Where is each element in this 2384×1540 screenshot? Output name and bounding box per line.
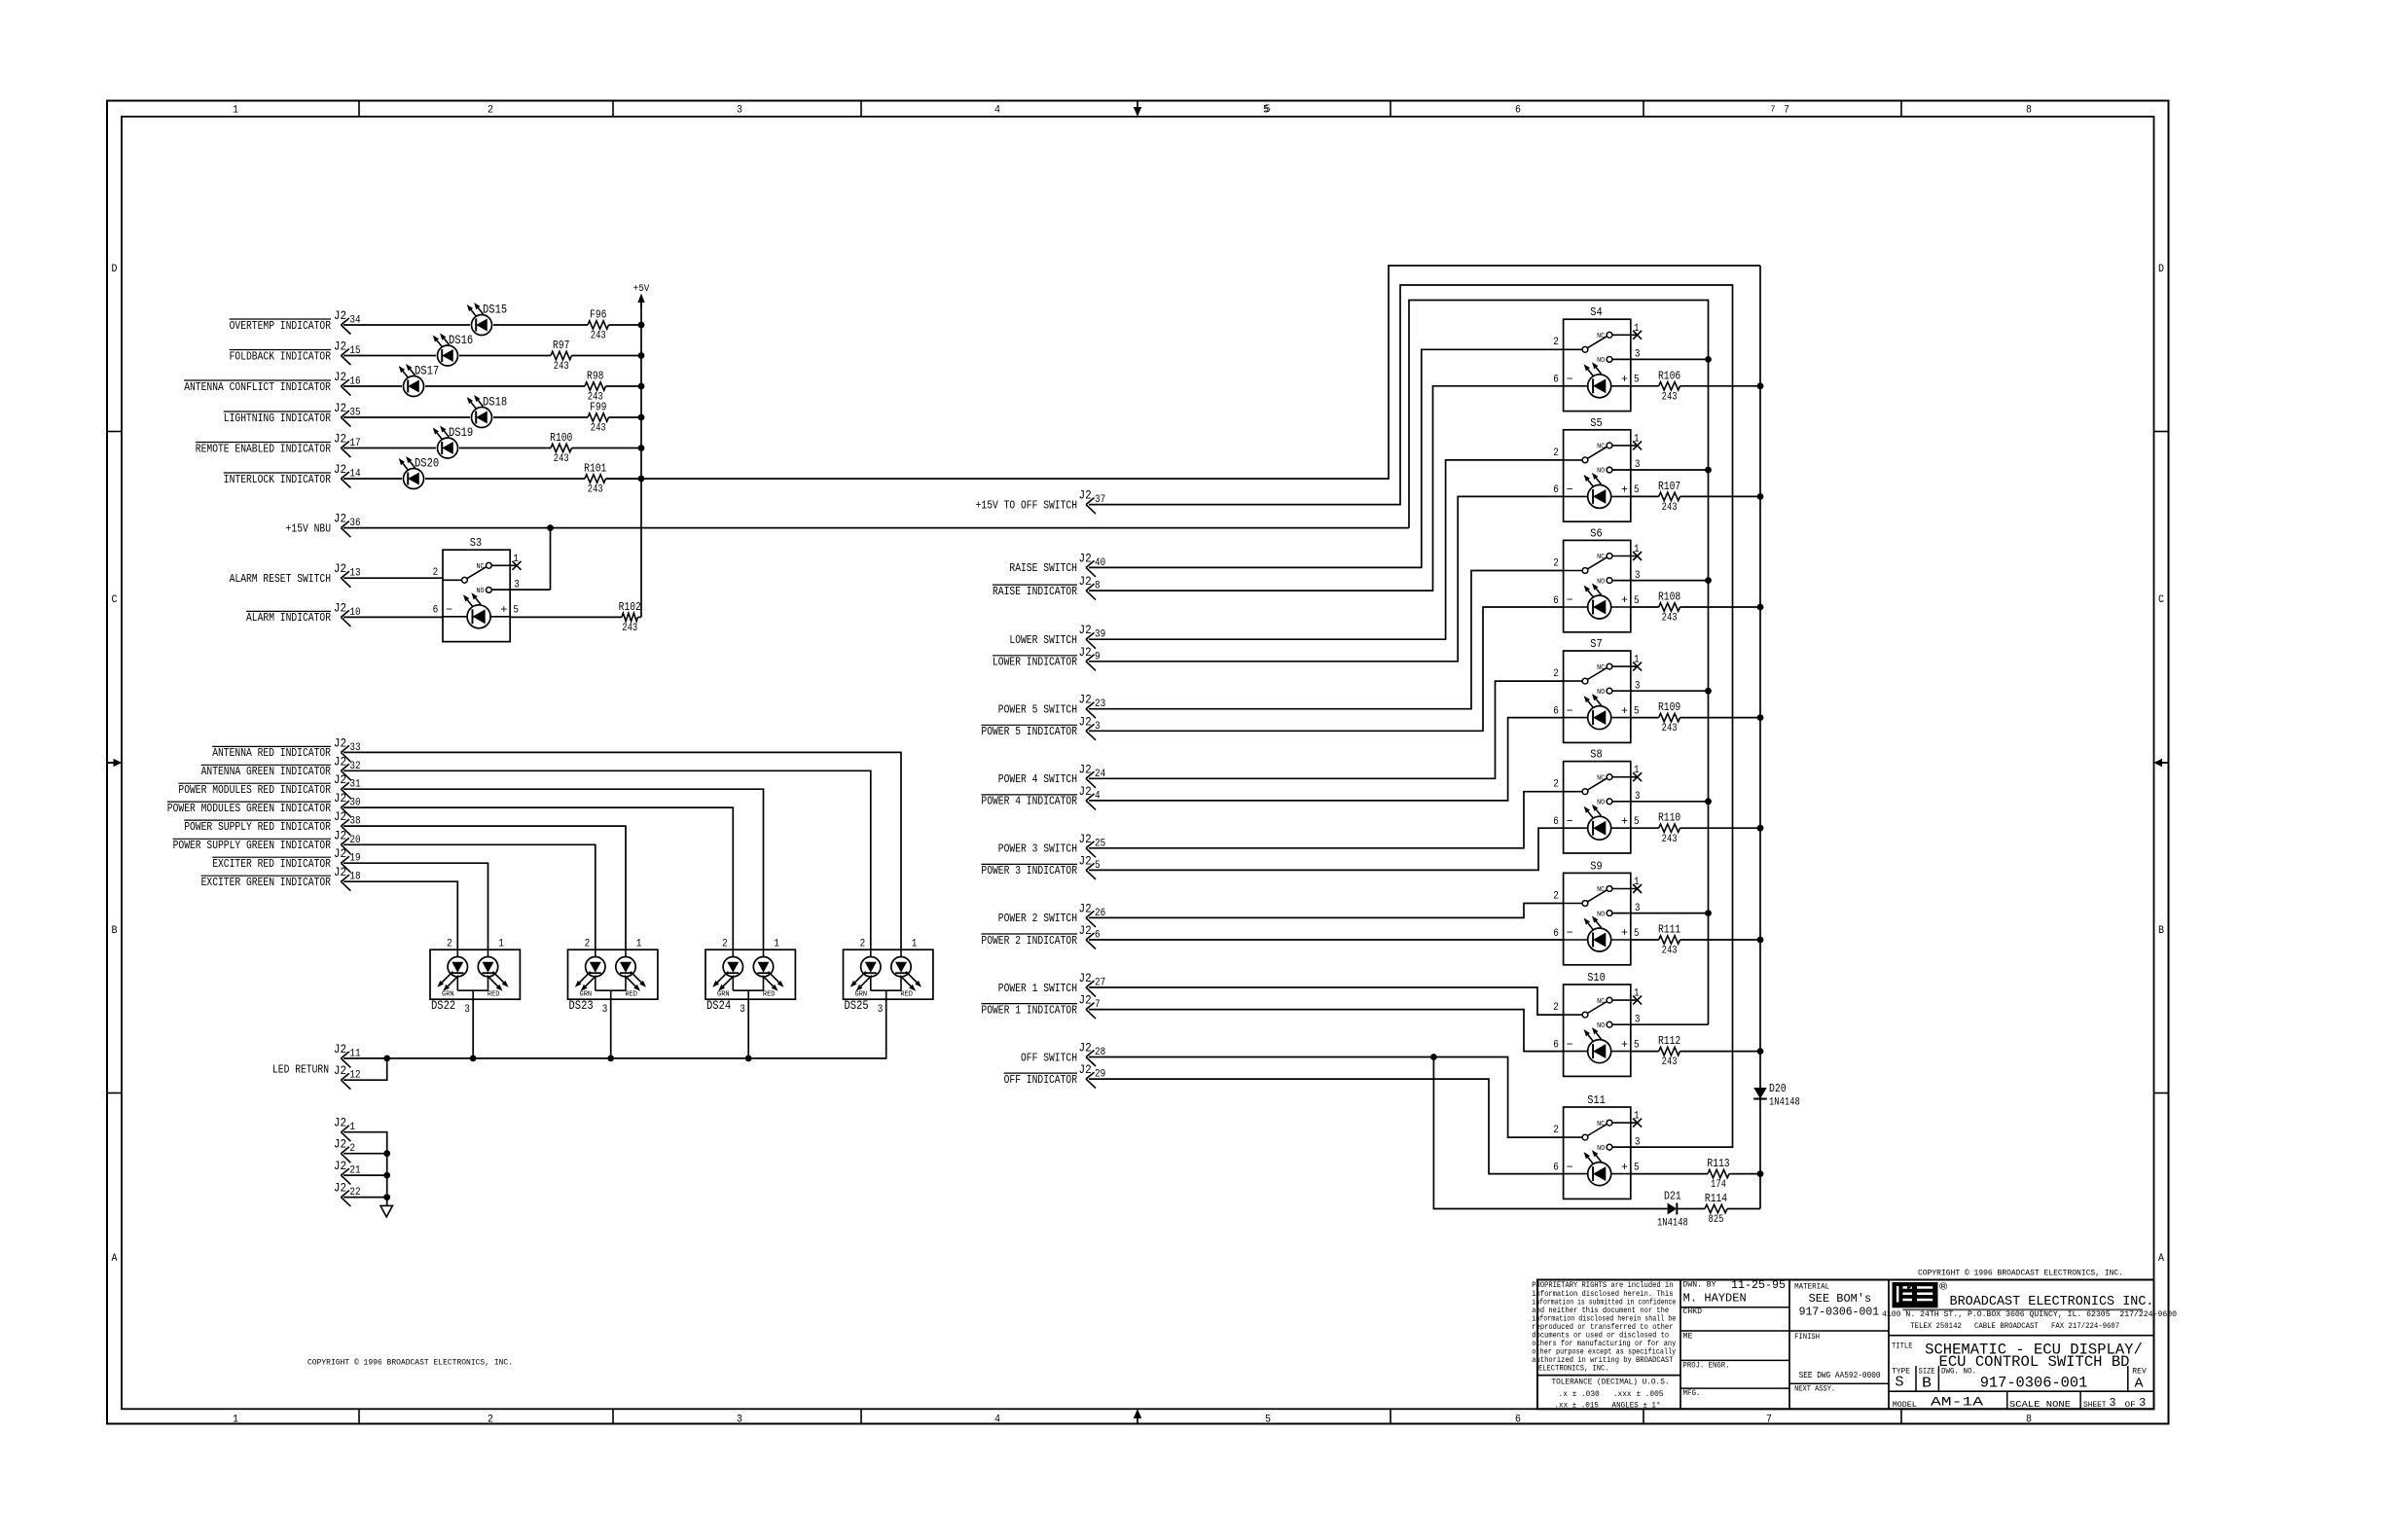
svg-text:SCALE NONE: SCALE NONE — [2009, 1399, 2071, 1410]
wire POWER 2 SWITCH net — [1089, 904, 1564, 918]
connector J2 pin 1 — [334, 1116, 355, 1142]
svg-text:3: 3 — [737, 105, 742, 117]
connector J2 pin 28 (OFF SWITCH) — [1021, 1041, 1105, 1067]
svg-text:1N4148: 1N4148 — [1769, 1097, 1800, 1109]
svg-text:2: 2 — [1553, 779, 1559, 791]
svg-text:RED: RED — [763, 991, 776, 999]
svg-text:+: + — [500, 603, 507, 617]
dual LED DS22 — [430, 939, 520, 1016]
svg-text:6: 6 — [1553, 484, 1559, 496]
svg-text:B: B — [112, 925, 118, 937]
wire +15V TO OFF SWITCH net — [1089, 285, 1733, 1147]
svg-text:243: 243 — [1662, 613, 1678, 625]
switch S9 — [1553, 859, 1642, 964]
svg-text:J2: J2 — [1079, 832, 1092, 846]
svg-text:2: 2 — [488, 1415, 493, 1426]
svg-text:B: B — [1922, 1376, 1932, 1392]
svg-text:POWER 2 INDICATOR: POWER 2 INDICATOR — [981, 934, 1077, 948]
svg-text:243: 243 — [1662, 1057, 1678, 1068]
connector J2 pin 24 (POWER 4 SWITCH) — [998, 762, 1106, 788]
resistor R106 — [1658, 369, 1680, 403]
wire POWER 3 INDICATOR net — [1089, 828, 1564, 870]
wire OFF SWITCH net — [1089, 1054, 1668, 1208]
resistor R114 — [1705, 1192, 1727, 1226]
wire S10 pin3 to NBU bus — [1612, 1023, 1709, 1025]
svg-text:6: 6 — [433, 605, 439, 617]
svg-text:4: 4 — [994, 1415, 1000, 1426]
wire EXCITER GREEN INDICATOR net — [343, 881, 457, 949]
diode D21 — [1657, 1190, 1688, 1230]
wire POWER 5 INDICATOR net — [1089, 607, 1564, 731]
resistor R113 — [1707, 1157, 1729, 1191]
svg-text:1: 1 — [1634, 988, 1640, 1000]
connector J2 pin 18 (EXCITER GREEN INDICATOR) — [201, 865, 361, 891]
svg-text:6: 6 — [1553, 816, 1559, 828]
svg-text:OF: OF — [2125, 1401, 2136, 1410]
resistor R101 — [584, 462, 606, 496]
diode D20 — [1753, 1082, 1800, 1109]
svg-text:DS15: DS15 — [483, 303, 507, 316]
svg-text:5: 5 — [513, 605, 519, 617]
svg-text:F96: F96 — [590, 308, 606, 322]
svg-text:2: 2 — [1553, 1125, 1559, 1136]
resistor R109 — [1658, 700, 1680, 734]
svg-text:3: 3 — [737, 1415, 742, 1426]
svg-text:3: 3 — [2110, 1396, 2116, 1410]
svg-text:5: 5 — [1634, 484, 1640, 496]
svg-text:1: 1 — [513, 554, 519, 565]
LED DS18 — [467, 395, 507, 428]
resistor R111 — [1658, 923, 1680, 957]
svg-text:825: 825 — [1709, 1214, 1724, 1226]
connector J2 pin 23 (POWER 5 SWITCH) — [998, 693, 1105, 719]
svg-text:1: 1 — [233, 105, 238, 117]
svg-text:SHEET: SHEET — [2083, 1401, 2107, 1410]
switch S7 — [1553, 637, 1642, 742]
svg-text:1: 1 — [498, 939, 504, 950]
ground symbol — [380, 1205, 392, 1217]
connector J2 pin 35 (LIGHTNING INDICATOR) — [224, 401, 361, 427]
svg-text:RED: RED — [900, 991, 913, 999]
connector J2 pin 32 (ANTENNA GREEN INDICATOR) — [201, 754, 361, 780]
svg-text:GRN: GRN — [442, 991, 454, 999]
svg-text:NO: NO — [1597, 911, 1605, 918]
svg-text:J2: J2 — [334, 1137, 346, 1152]
svg-text:J2: J2 — [1079, 762, 1092, 776]
svg-text:NO: NO — [1597, 1145, 1605, 1153]
svg-text:SEE DWG AA592-0000: SEE DWG AA592-0000 — [1799, 1370, 1881, 1380]
wire S6 pin3 to NBU bus — [1612, 577, 1712, 584]
wire OVERTEMP INDICATOR net — [343, 322, 644, 329]
svg-text:J2: J2 — [334, 1116, 346, 1130]
svg-text:NO: NO — [1597, 689, 1605, 697]
title block title — [1892, 1341, 2143, 1371]
svg-text:NC: NC — [1597, 1121, 1605, 1128]
connector J2 pin 21 — [334, 1159, 361, 1185]
svg-text:6: 6 — [1553, 705, 1559, 717]
wire S7 pin3 to NBU bus — [1612, 688, 1712, 695]
svg-text:ANTENNA CONFLICT INDICATOR: ANTENNA CONFLICT INDICATOR — [184, 380, 331, 394]
svg-text:COPYRIGHT © 1996 BROADCAST ELE: COPYRIGHT © 1996 BROADCAST ELECTRONICS, … — [307, 1359, 513, 1368]
svg-text:PROJ. ENGR.: PROJ. ENGR. — [1683, 1361, 1730, 1370]
svg-text:1: 1 — [1634, 765, 1640, 776]
svg-text:+5V: +5V — [633, 284, 650, 295]
svg-text:1: 1 — [1634, 544, 1640, 555]
svg-text:POWER 1 INDICATOR: POWER 1 INDICATOR — [981, 1003, 1077, 1017]
svg-text:1N4148: 1N4148 — [1657, 1218, 1688, 1230]
svg-text:+: + — [1621, 373, 1628, 386]
svg-text:243: 243 — [591, 331, 606, 342]
wire LOWER INDICATOR net — [1089, 496, 1564, 661]
svg-text:J2: J2 — [334, 809, 346, 824]
wire POWER 1 SWITCH net — [1089, 987, 1564, 1015]
connector J2 pin 27 (POWER 1 SWITCH) — [998, 971, 1105, 997]
svg-text:J2: J2 — [1079, 693, 1092, 707]
svg-text:2: 2 — [1553, 890, 1559, 902]
svg-text:3: 3 — [602, 1004, 608, 1016]
svg-text:S6: S6 — [1590, 526, 1602, 540]
wire S10 pin5 to +5V bus — [1631, 1048, 1764, 1055]
dual LED DS25 — [844, 939, 933, 1016]
svg-text:NO: NO — [1597, 800, 1605, 807]
connector J2 pin 25 (POWER 3 SWITCH) — [998, 832, 1105, 858]
svg-text:OVERTEMP INDICATOR: OVERTEMP INDICATOR — [230, 319, 331, 333]
wire POWER MODULES GREEN INDICATOR net — [343, 807, 733, 949]
wire POWER MODULES RED INDICATOR net — [343, 789, 764, 949]
svg-text:POWER 3 SWITCH: POWER 3 SWITCH — [998, 842, 1077, 856]
svg-text:5: 5 — [1265, 1415, 1271, 1426]
svg-text:DS23: DS23 — [569, 999, 594, 1013]
wire +5V feed to switch bank — [606, 266, 1761, 479]
svg-text:6: 6 — [1515, 1415, 1521, 1426]
connector J2 pin 38 (POWER SUPPLY RED INDICATOR) — [184, 809, 360, 836]
svg-text:J2: J2 — [1079, 1062, 1092, 1077]
svg-text:3: 3 — [878, 1004, 884, 1016]
svg-text:REMOTE ENABLED INDICATOR: REMOTE ENABLED INDICATOR — [196, 442, 331, 455]
wire S8 pin3 to NBU bus — [1612, 798, 1712, 805]
svg-text:FINISH: FINISH — [1794, 1333, 1820, 1342]
wire POWER 4 SWITCH net — [1089, 681, 1564, 778]
svg-text:6: 6 — [1553, 375, 1559, 386]
svg-text:MFG.: MFG. — [1683, 1389, 1701, 1398]
title block address — [1882, 1310, 2177, 1331]
connector J2 pin 22 — [334, 1181, 361, 1207]
title block frame — [1537, 1280, 2154, 1410]
switch S6 — [1553, 526, 1642, 631]
svg-text:2: 2 — [488, 105, 493, 117]
wire ANTENNA CONFLICT INDICATOR net — [343, 383, 644, 390]
wire S3 pin3 to +15V NBU — [491, 528, 550, 591]
svg-text:917-0306-001: 917-0306-001 — [1799, 1305, 1880, 1318]
svg-text:C: C — [2158, 594, 2164, 606]
wire POWER 1 INDICATOR net — [1089, 1010, 1564, 1052]
svg-text:DWN. BY: DWN. BY — [1683, 1280, 1716, 1289]
svg-text:2: 2 — [1553, 448, 1559, 459]
connector J2 pin 39 (LOWER SWITCH) — [1009, 623, 1105, 649]
wire RAISE INDICATOR net — [1089, 386, 1564, 591]
svg-text:.x ± .030 .xxx ± .005: .x ± .030 .xxx ± .005 — [1559, 1389, 1664, 1399]
svg-text:174: 174 — [1711, 1179, 1726, 1191]
svg-text:DWG. NO.: DWG. NO. — [1941, 1368, 1976, 1377]
svg-text:NC: NC — [1597, 444, 1605, 451]
svg-text:S4: S4 — [1590, 305, 1602, 319]
connector J2 pin 2 — [334, 1137, 355, 1164]
wire S7 pin5 to +5V bus — [1631, 714, 1764, 721]
svg-text:CHKD: CHKD — [1683, 1307, 1703, 1316]
svg-text:5: 5 — [1634, 595, 1640, 607]
svg-text:5: 5 — [1634, 1162, 1640, 1173]
wire ANTENNA GREEN INDICATOR net — [343, 770, 871, 949]
svg-text:J2: J2 — [334, 865, 346, 879]
svg-text:NO: NO — [1597, 468, 1605, 476]
wire +5V bus (right) — [1759, 266, 1761, 1209]
svg-text:R111: R111 — [1658, 923, 1680, 937]
LED DS17 — [399, 364, 439, 397]
svg-text:GRN: GRN — [717, 991, 730, 999]
svg-text:GRN: GRN — [580, 991, 593, 999]
svg-text:POWER 2 SWITCH: POWER 2 SWITCH — [998, 912, 1077, 925]
svg-text:S9: S9 — [1590, 859, 1602, 873]
svg-text:A: A — [2158, 1253, 2164, 1265]
wire S6 pin5 to +5V bus — [1631, 604, 1764, 611]
wire ANTENNA RED INDICATOR net — [343, 752, 901, 949]
connector J2 pin 34 (OVERTEMP INDICATOR) — [230, 308, 361, 335]
svg-text:6: 6 — [1553, 1162, 1559, 1173]
svg-text:J2: J2 — [1079, 901, 1092, 915]
svg-text:8: 8 — [2026, 1415, 2032, 1426]
svg-text:ALARM INDICATOR: ALARM INDICATOR — [246, 611, 331, 625]
svg-text:2: 2 — [1553, 337, 1559, 348]
wire FOLDBACK INDICATOR net — [343, 352, 644, 359]
wire ALARM INDICATOR net — [343, 616, 443, 618]
svg-text:7: 7 — [1784, 105, 1789, 117]
svg-text:EXCITER GREEN INDICATOR: EXCITER GREEN INDICATOR — [201, 876, 331, 889]
wire S8 pin5 to +5V bus — [1631, 825, 1764, 832]
svg-text:ELECTRONICS, INC.: ELECTRONICS, INC. — [1538, 1365, 1609, 1374]
svg-text:ALARM RESET SWITCH: ALARM RESET SWITCH — [230, 572, 331, 586]
svg-text:3: 3 — [464, 1004, 470, 1016]
svg-text:J2: J2 — [1079, 784, 1092, 799]
resistor R98 — [585, 370, 606, 404]
svg-text:GRN: GRN — [855, 991, 868, 999]
svg-text:+: + — [1621, 704, 1628, 718]
resistor R107 — [1658, 480, 1680, 514]
svg-text:J2: J2 — [334, 1159, 346, 1173]
wire ALARM RESET SWITCH net — [343, 577, 443, 579]
title block model-scale-sheet row — [1893, 1396, 2147, 1411]
svg-text:C: C — [112, 594, 118, 606]
svg-text:243: 243 — [1662, 502, 1678, 514]
svg-text:F99: F99 — [590, 401, 606, 414]
connector J2 pin 11 (LED RETURN) — [272, 1042, 361, 1077]
svg-text:−: − — [1567, 483, 1573, 497]
svg-text:+: + — [1621, 593, 1628, 607]
connector J2 pin 9 (LOWER INDICATOR) — [993, 645, 1101, 671]
svg-text:3: 3 — [2139, 1396, 2146, 1410]
svg-text:J2: J2 — [334, 462, 346, 477]
connector J2 pin 26 (POWER 2 SWITCH) — [998, 901, 1105, 927]
svg-text:POWER 4 INDICATOR: POWER 4 INDICATOR — [981, 795, 1077, 808]
svg-text:R114: R114 — [1705, 1192, 1727, 1205]
wire LED RETURN net — [343, 999, 886, 1080]
svg-text:5: 5 — [1634, 375, 1640, 386]
svg-text:−: − — [1567, 926, 1573, 940]
dual LED DS23 — [568, 939, 658, 1016]
svg-text:7: 7 — [1771, 104, 1776, 115]
wire S5 pin3 to NBU bus — [1612, 467, 1712, 474]
svg-text:S11: S11 — [1587, 1093, 1606, 1107]
svg-text:B: B — [2158, 925, 2164, 937]
svg-text:J2: J2 — [1079, 623, 1092, 637]
wire S4 pin5 to +5V bus — [1631, 382, 1764, 389]
svg-text:R106: R106 — [1658, 369, 1680, 382]
svg-text:RAISE SWITCH: RAISE SWITCH — [1009, 561, 1077, 575]
svg-text:R110: R110 — [1658, 811, 1680, 825]
svg-text:R97: R97 — [553, 339, 569, 352]
svg-text:J2: J2 — [1079, 574, 1092, 589]
wire LOWER SWITCH net — [1089, 460, 1564, 639]
title block drawn-by fields — [1683, 1279, 1787, 1398]
svg-text:NO: NO — [1597, 1022, 1605, 1030]
svg-text:6: 6 — [1553, 595, 1559, 607]
svg-text:FOLDBACK INDICATOR: FOLDBACK INDICATOR — [230, 349, 331, 363]
svg-text:−: − — [1567, 1161, 1573, 1174]
resistor R102 — [619, 600, 641, 634]
wire ground net — [343, 1132, 390, 1206]
svg-text:J2: J2 — [334, 340, 346, 354]
svg-text:COPYRIGHT © 1996 BROADCAST ELE: COPYRIGHT © 1996 BROADCAST ELECTRONICS, … — [1918, 1270, 2123, 1278]
svg-text:POWER MODULES RED INDICATOR: POWER MODULES RED INDICATOR — [178, 783, 331, 797]
svg-text:R101: R101 — [584, 462, 606, 476]
svg-text:+: + — [1621, 1161, 1628, 1174]
svg-text:1: 1 — [636, 939, 642, 950]
copyright notice (title block) — [1918, 1270, 2123, 1278]
svg-text:OFF INDICATOR: OFF INDICATOR — [1004, 1073, 1077, 1087]
svg-text:MATERIAL: MATERIAL — [1794, 1283, 1829, 1292]
svg-text:S10: S10 — [1587, 971, 1606, 985]
svg-text:POWER 5 INDICATOR: POWER 5 INDICATOR — [981, 725, 1077, 738]
svg-text:4: 4 — [994, 105, 1000, 117]
svg-text:TOLERANCE (DECIMAL) U.O.S.: TOLERANCE (DECIMAL) U.O.S. — [1552, 1378, 1670, 1387]
svg-text:1: 1 — [1634, 877, 1640, 888]
svg-text:J2: J2 — [334, 370, 346, 384]
svg-text:1: 1 — [1634, 1111, 1640, 1123]
svg-text:6: 6 — [1553, 1039, 1559, 1051]
wire OFF INDICATOR net — [1089, 1079, 1564, 1174]
svg-text:J2: J2 — [334, 735, 346, 750]
svg-text:NC: NC — [1597, 664, 1605, 672]
svg-text:DS16: DS16 — [449, 334, 473, 347]
svg-text:J2: J2 — [1079, 714, 1092, 729]
svg-text:ME: ME — [1683, 1333, 1693, 1342]
svg-text:R109: R109 — [1658, 700, 1680, 714]
svg-text:LIGHTNING INDICATOR: LIGHTNING INDICATOR — [224, 412, 331, 425]
svg-text:R100: R100 — [550, 431, 572, 445]
svg-text:RED: RED — [625, 991, 637, 999]
connector J2 pin 8 (RAISE INDICATOR) — [993, 574, 1101, 600]
svg-text:1: 1 — [1634, 323, 1640, 335]
svg-text:DS20: DS20 — [415, 456, 439, 470]
wire EXCITER RED INDICATOR net — [343, 863, 488, 949]
wire INTERLOCK INDICATOR net — [343, 476, 644, 483]
connector J2 pin 20 (POWER SUPPLY GREEN INDICATOR) — [173, 828, 361, 854]
svg-text:LOWER SWITCH: LOWER SWITCH — [1009, 633, 1077, 647]
wire D21 to R114 to +5V bus — [1677, 1208, 1760, 1210]
svg-text:+: + — [1621, 1038, 1628, 1052]
svg-text:NO: NO — [477, 588, 485, 595]
svg-text:NO: NO — [1597, 357, 1605, 365]
svg-text:2: 2 — [447, 939, 452, 950]
svg-text:OFF SWITCH: OFF SWITCH — [1021, 1051, 1077, 1064]
svg-text:243: 243 — [1662, 723, 1678, 734]
svg-text:5: 5 — [1634, 705, 1640, 717]
svg-text:5: 5 — [1634, 816, 1640, 828]
title block type-size-dwg-rev row — [1892, 1368, 2147, 1392]
svg-text:1: 1 — [233, 1415, 238, 1426]
svg-text:J2: J2 — [1079, 853, 1092, 868]
svg-text:J2: J2 — [334, 772, 346, 787]
svg-text:J2: J2 — [334, 600, 346, 615]
svg-text:5: 5 — [1634, 928, 1640, 940]
connector J2 pin 16 (ANTENNA CONFLICT INDICATOR) — [184, 370, 360, 396]
svg-text:J2: J2 — [1079, 645, 1092, 660]
wire POWER 2 INDICATOR net — [1089, 939, 1564, 941]
svg-text:J2: J2 — [334, 828, 346, 842]
resistor R112 — [1658, 1034, 1680, 1068]
wire POWER SUPPLY GREEN INDICATOR net — [343, 844, 596, 949]
resistor F96 — [588, 308, 609, 342]
svg-text:−: − — [1567, 373, 1573, 386]
wire S11 pin3 to OFF bus — [1612, 1146, 1733, 1148]
svg-text:11-25-95: 11-25-95 — [1731, 1279, 1786, 1292]
wire POWER 3 SWITCH net — [1089, 792, 1564, 848]
svg-text:+15V TO OFF SWITCH: +15V TO OFF SWITCH — [976, 498, 1077, 512]
svg-text:+: + — [1621, 814, 1628, 828]
svg-text:+15V NBU: +15V NBU — [286, 521, 331, 535]
connector J2 pin 5 (POWER 3 INDICATOR) — [981, 853, 1100, 879]
svg-text:7: 7 — [1766, 1415, 1772, 1426]
svg-text:R108: R108 — [1658, 591, 1680, 604]
svg-text:NC: NC — [1597, 774, 1605, 782]
svg-text:NC: NC — [1597, 554, 1605, 561]
svg-text:NC: NC — [1597, 333, 1605, 340]
svg-text:POWER SUPPLY RED INDICATOR: POWER SUPPLY RED INDICATOR — [184, 820, 331, 834]
svg-text:1: 1 — [1634, 433, 1640, 445]
svg-text:R112: R112 — [1658, 1034, 1680, 1048]
svg-text:POWER 5 SWITCH: POWER 5 SWITCH — [998, 703, 1077, 717]
svg-text:D20: D20 — [1769, 1082, 1787, 1095]
svg-text:243: 243 — [1662, 834, 1678, 845]
connector J2 pin 7 (POWER 1 INDICATOR) — [981, 993, 1100, 1020]
connector J2 pin 12 — [334, 1063, 361, 1090]
svg-text:6: 6 — [1515, 105, 1521, 117]
svg-text:D: D — [112, 264, 118, 275]
connector J2 pin 10 (ALARM INDICATOR) — [246, 600, 361, 627]
LED DS19 — [433, 426, 473, 459]
svg-text:J2: J2 — [1079, 993, 1092, 1008]
connector J2 pin 36 (+15V NBU) — [286, 512, 361, 538]
svg-text:−: − — [446, 603, 452, 617]
svg-text:LED RETURN: LED RETURN — [272, 1063, 329, 1077]
svg-text:J2: J2 — [334, 846, 346, 861]
title block proprietary notice — [1532, 1281, 1676, 1374]
svg-text:DS18: DS18 — [483, 395, 507, 409]
svg-text:243: 243 — [588, 484, 603, 496]
wire POWER 5 SWITCH net — [1089, 571, 1564, 709]
svg-text:S: S — [1896, 1375, 1904, 1391]
LED DS20 — [399, 456, 439, 489]
resistor R110 — [1658, 811, 1680, 845]
